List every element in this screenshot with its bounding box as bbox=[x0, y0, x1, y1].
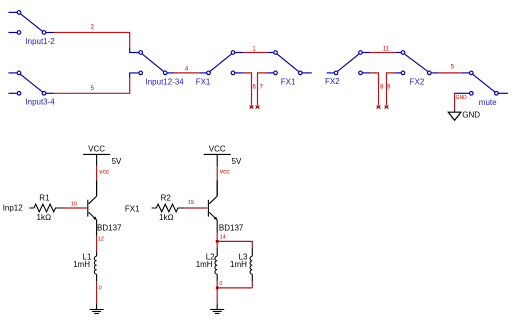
svg-text:12: 12 bbox=[98, 236, 104, 242]
svg-text:1mH: 1mH bbox=[230, 260, 247, 269]
power VCC (circuit 1) bbox=[83, 144, 122, 166]
wire net 12 bbox=[97, 236, 104, 253]
wire net vcc (circuit 1) bbox=[97, 166, 110, 196]
wire net 10 bbox=[62, 201, 87, 208]
wire net 5 (mute feed) bbox=[438, 65, 469, 73]
svg-text:vcc: vcc bbox=[99, 169, 110, 176]
svg-text:mute: mute bbox=[479, 98, 497, 107]
svg-text:0: 0 bbox=[99, 286, 102, 292]
switch FX2 (left) bbox=[325, 51, 370, 86]
node junction (emitter / L2 / L3 top) bbox=[216, 240, 219, 243]
svg-text:15: 15 bbox=[188, 200, 194, 206]
svg-text:Input1-2: Input1-2 bbox=[25, 37, 55, 46]
svg-text:VCC: VCC bbox=[88, 144, 105, 153]
svg-text:GND: GND bbox=[462, 111, 480, 120]
svg-text:1kΩ: 1kΩ bbox=[37, 213, 52, 222]
wire net 9 bbox=[385, 73, 401, 109]
wire net 5 bbox=[54, 73, 139, 93]
wire net 0 (circuit 1) bbox=[97, 281, 102, 310]
svg-text:10: 10 bbox=[71, 201, 77, 207]
wire to ground (circuit 2) bbox=[216, 303, 218, 309]
switch Input1-2 bbox=[8, 11, 55, 46]
wire net 11 bbox=[370, 46, 401, 52]
svg-text:Input12-34: Input12-34 bbox=[146, 78, 185, 87]
power VCC (circuit 2) bbox=[204, 144, 242, 166]
ground (circuit 1) bbox=[90, 310, 104, 314]
svg-text:GND: GND bbox=[456, 95, 468, 101]
inductor L2 bbox=[196, 248, 218, 281]
wire net 8 bbox=[370, 73, 384, 109]
svg-text:11: 11 bbox=[383, 46, 390, 52]
switch Input3-4 bbox=[8, 71, 55, 107]
wire net 15 bbox=[185, 200, 208, 208]
svg-text:5V: 5V bbox=[112, 157, 122, 166]
switch FX2 (right) bbox=[401, 51, 438, 87]
svg-text:BD137: BD137 bbox=[97, 224, 122, 233]
switch FX1 (left) bbox=[196, 51, 243, 87]
switch Input12-34 bbox=[139, 51, 184, 87]
svg-text:Input3-4: Input3-4 bbox=[25, 98, 55, 107]
svg-text:1kΩ: 1kΩ bbox=[159, 213, 174, 222]
svg-text:vcc: vcc bbox=[220, 169, 231, 176]
wire net 6 bbox=[243, 73, 257, 109]
resistor R1 bbox=[29, 193, 62, 222]
wire L2-L3 bottom link (net 0 circuit 2) bbox=[217, 281, 252, 303]
svg-text:FX1: FX1 bbox=[125, 205, 140, 214]
wire net 14 bbox=[217, 232, 226, 242]
inductor L3 bbox=[230, 248, 252, 281]
svg-text:FX1: FX1 bbox=[281, 77, 296, 86]
svg-text:VCC: VCC bbox=[209, 144, 226, 153]
wire net GND (mute) bbox=[455, 93, 470, 112]
svg-text:0: 0 bbox=[219, 281, 222, 287]
svg-text:FX2: FX2 bbox=[325, 77, 340, 86]
ground (circuit 2) bbox=[210, 310, 224, 314]
wire net 4 bbox=[174, 67, 207, 73]
wire net 2 bbox=[54, 25, 139, 53]
svg-text:14: 14 bbox=[220, 234, 226, 240]
transistor Q2 BD137 bbox=[208, 181, 244, 233]
svg-text:1mH: 1mH bbox=[196, 260, 213, 269]
ground GND (top right) bbox=[448, 111, 480, 121]
switch mute bbox=[470, 71, 509, 107]
transistor Q1 BD137 bbox=[88, 181, 122, 236]
svg-text:FX1: FX1 bbox=[196, 77, 211, 86]
svg-text:5V: 5V bbox=[232, 157, 242, 166]
inductor L1 bbox=[73, 252, 97, 281]
wire L2-L3 top link bbox=[217, 241, 252, 247]
resistor R2 bbox=[152, 193, 185, 222]
svg-text:R2: R2 bbox=[161, 193, 172, 202]
svg-text:Inp12: Inp12 bbox=[3, 204, 24, 213]
wire net 1 bbox=[243, 46, 274, 52]
wire net 7 bbox=[256, 73, 274, 109]
switch FX1 (right) bbox=[274, 51, 312, 87]
node junction (L2 bottom / L3 bottom / gnd) bbox=[216, 287, 219, 290]
svg-text:FX2: FX2 bbox=[410, 77, 425, 86]
wire net vcc (circuit 2) bbox=[217, 166, 230, 196]
svg-text:R1: R1 bbox=[39, 193, 50, 202]
svg-text:1mH: 1mH bbox=[73, 260, 90, 269]
svg-text:BD137: BD137 bbox=[219, 224, 244, 233]
